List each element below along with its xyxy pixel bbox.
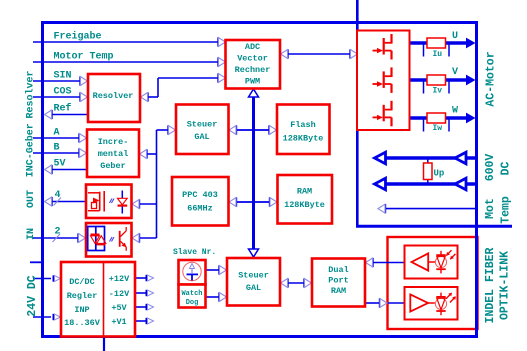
- svg-text:ADC: ADC: [245, 42, 260, 52]
- wire DCDC ground drop: [103, 338, 105, 351]
- wire 5V: [51, 169, 88, 171]
- wire COS: [33, 96, 81, 98]
- diode OUT output: [118, 191, 128, 214]
- resistor Iu: [427, 38, 446, 48]
- label Motor Temp: [54, 52, 114, 63]
- wire DualPort to fiber TX: [366, 302, 380, 304]
- node arrow into ADC from resolver wire: [217, 73, 225, 82]
- svg-text:128KByte: 128KByte: [283, 134, 324, 144]
- svg-text:Watch: Watch: [181, 290, 202, 298]
- wire phase W: [410, 116, 467, 119]
- label B: [54, 143, 60, 154]
- wire Iu sense taps: [424, 44, 450, 57]
- node arrow U filled: [466, 38, 476, 49]
- svg-text:5V: 5V: [54, 159, 66, 170]
- svg-text:Slave Nr.: Slave Nr.: [173, 248, 216, 257]
- block Steuer GAL 1: [176, 105, 229, 155]
- node RX photon arrows: [446, 250, 455, 259]
- node IN arrow into opto: [77, 233, 85, 242]
- label IN side: [26, 228, 37, 240]
- svg-text:COS: COS: [54, 87, 72, 98]
- node OUT arrow out to border: [45, 197, 53, 206]
- svg-text:IN: IN: [26, 228, 37, 240]
- wire A: [33, 137, 80, 139]
- wire OUT bus slash: [54, 198, 62, 206]
- wire -12V out: [136, 290, 154, 296]
- node COS arrow into Resolver: [79, 92, 87, 101]
- transistor OUT photomos: [88, 191, 104, 212]
- node arrow 600V plus left: [375, 152, 386, 164]
- node Motor Temp arrow into ADC: [217, 57, 225, 66]
- wire Ref: [51, 114, 88, 116]
- label A: [54, 128, 60, 139]
- power section divider vertical: [356, 0, 359, 227]
- bus ADC vertical: [252, 95, 255, 250]
- node arrow into PPC right: [229, 197, 237, 206]
- wire GAL2 to DualPort: [281, 282, 313, 284]
- node Freigabe arrow into ADC: [217, 37, 225, 46]
- transistor IGBT W: [373, 101, 392, 127]
- wire resolver feedback: [147, 78, 219, 97]
- svg-text:Incre-: Incre-: [98, 137, 129, 147]
- node arrow into RAM left: [269, 197, 277, 206]
- svg-text:INDEL FIBER: INDEL FIBER: [484, 247, 497, 323]
- svg-text:66MHz: 66MHz: [187, 204, 213, 214]
- block Dual Port RAM: [312, 259, 365, 307]
- node arrow 600V minus left: [375, 178, 386, 190]
- wire 600V plus: [377, 156, 476, 160]
- wire Steuer GAL1 to Flash: [229, 129, 277, 131]
- svg-text:Iv: Iv: [433, 86, 443, 95]
- svg-text:DC: DC: [500, 162, 513, 176]
- svg-text:Temp: Temp: [500, 196, 513, 224]
- main frame border: [43, 23, 477, 337]
- svg-text:Freigabe: Freigabe: [54, 31, 102, 43]
- node arrow 600V minus mid: [455, 178, 466, 190]
- node 5V arrow out to border: [45, 165, 53, 174]
- svg-text:RAM: RAM: [331, 286, 346, 296]
- block fiber transmitter: [405, 287, 458, 320]
- wire Freigabe: [33, 41, 219, 43]
- svg-text:18..36V: 18..36V: [64, 318, 101, 328]
- wire PPC to RAM: [229, 201, 277, 203]
- label OUT side: [26, 190, 37, 208]
- label 4: [55, 190, 61, 201]
- svg-text:Regler: Regler: [67, 291, 98, 301]
- block IGBT power module: [357, 31, 410, 131]
- wire B: [33, 152, 80, 154]
- block Slave Nr selector: [179, 260, 206, 285]
- diode RX photodiode: [435, 251, 446, 274]
- svg-text:Resolver: Resolver: [93, 91, 134, 101]
- node arrow down into Steuer GAL2: [249, 249, 259, 257]
- svg-text:Motor Temp: Motor Temp: [54, 52, 114, 63]
- label AC-Motor side: [485, 51, 498, 106]
- node B arrow into Geber: [78, 148, 86, 157]
- label 2: [55, 227, 61, 238]
- transistor IGBT V: [373, 67, 392, 93]
- wire +V1 out: [136, 318, 154, 324]
- resistor Iw: [427, 113, 446, 123]
- label U: [452, 31, 458, 42]
- svg-text:INC-Geber: INC-Geber: [25, 123, 37, 177]
- diode IN antiparallel leds: [91, 235, 106, 245]
- svg-text:Flash: Flash: [290, 120, 316, 130]
- label Ref: [54, 103, 72, 115]
- node IN input bridge: [88, 227, 105, 251]
- block OUT optocoupler: [86, 185, 132, 219]
- svg-text:Geber: Geber: [100, 161, 126, 171]
- label Iv: [433, 86, 443, 95]
- wire Iv sense taps: [424, 81, 450, 94]
- node IN coupling mark: [110, 237, 115, 242]
- wire DCDC in1: [33, 278, 51, 280]
- block fiber receiver: [405, 246, 458, 279]
- op-amp RX: [412, 253, 436, 270]
- svg-text:600V: 600V: [484, 154, 497, 182]
- svg-text:Iw: Iw: [433, 124, 443, 133]
- svg-text:Vector: Vector: [237, 54, 268, 64]
- label Slave Nr.: [173, 248, 216, 257]
- svg-text:RAM: RAM: [297, 187, 312, 197]
- svg-text:Rechner: Rechner: [235, 65, 271, 75]
- svg-text:24V DC: 24V DC: [26, 275, 39, 317]
- block Incremental Geber: [87, 130, 139, 178]
- svg-text:Up: Up: [434, 169, 445, 179]
- label Mot Temp side: [484, 196, 513, 224]
- node arrow V filled: [466, 75, 476, 86]
- svg-text:+5V: +5V: [111, 303, 127, 313]
- label Resolver side: [25, 70, 37, 118]
- node A arrow into Geber: [78, 133, 86, 142]
- node TX photon arrows: [446, 293, 456, 303]
- power section divider horizontal: [356, 225, 512, 228]
- block PPC 403: [172, 177, 229, 226]
- node arrow Mot Temp: [378, 204, 386, 213]
- label V: [452, 67, 458, 78]
- wire +12V out: [136, 275, 154, 281]
- wire +5V out: [136, 304, 154, 310]
- svg-text:128KByte: 128KByte: [284, 200, 325, 210]
- block Watch Dog: [179, 285, 206, 308]
- wire Iw sense taps: [424, 119, 450, 132]
- block Flash: [277, 105, 330, 155]
- wire DCDC in2: [33, 316, 51, 318]
- svg-text:Steuer: Steuer: [187, 120, 218, 130]
- svg-text:mental: mental: [98, 149, 129, 159]
- svg-text:-12V: -12V: [109, 289, 130, 299]
- svg-text:GAL: GAL: [246, 283, 261, 293]
- wire branch to Steuer GAL1: [157, 125, 176, 134]
- svg-text:SIN: SIN: [54, 71, 72, 82]
- node arrow into GAL2 right: [281, 278, 289, 287]
- node OUT coupling mark: [110, 199, 115, 204]
- wire phase U: [410, 41, 467, 44]
- label Iw: [433, 124, 443, 133]
- wire Slave to GAL2: [206, 265, 227, 274]
- label Up: [434, 169, 445, 179]
- wire phase V: [410, 78, 467, 81]
- wire SIN: [33, 80, 81, 82]
- wire 600V minus: [377, 182, 476, 186]
- node DCDC in2 arrow: [53, 314, 61, 320]
- wire IN bus slash: [53, 234, 61, 242]
- label SIN: [54, 71, 72, 82]
- svg-text:PWM: PWM: [245, 77, 260, 87]
- svg-text:W: W: [452, 106, 458, 117]
- resistor Iv: [427, 75, 446, 85]
- wire Mot Temp sense: [385, 208, 476, 210]
- svg-text:+12V: +12V: [109, 274, 130, 284]
- 24V section tick: [30, 261, 44, 263]
- node arrow into Resolver right: [141, 92, 149, 101]
- node DCDC in1 arrow: [53, 275, 61, 281]
- block DC/DC Regler: [61, 262, 135, 337]
- node arrow into Steuer GAL1 right: [229, 125, 237, 134]
- wire WatchDog to GAL2: [206, 292, 227, 301]
- wire branch to Geber: [140, 149, 157, 158]
- label Iu: [433, 50, 443, 59]
- op-amp TX: [410, 294, 435, 311]
- svg-text:V: V: [452, 67, 458, 78]
- transistor IGBT U: [373, 34, 392, 60]
- svg-text:Steuer: Steuer: [238, 271, 269, 281]
- svg-text:Dual: Dual: [328, 265, 348, 275]
- node arrow up into ADC: [249, 89, 259, 97]
- wire IN 2: [33, 237, 78, 239]
- node selector wiper: [187, 264, 199, 281]
- svg-text:Dog: Dog: [186, 299, 199, 307]
- svg-text:B: B: [54, 143, 60, 154]
- svg-text:Iu: Iu: [433, 50, 443, 59]
- node arrow W filled: [466, 113, 476, 124]
- node arrow into DualPort left: [303, 278, 311, 287]
- label Freigabe: [54, 31, 102, 43]
- node SIN arrow into Resolver: [79, 76, 87, 85]
- svg-text:AC-Motor: AC-Motor: [485, 51, 498, 106]
- svg-text:Port: Port: [328, 276, 348, 286]
- svg-text:PPC 403: PPC 403: [182, 190, 218, 200]
- node arrow into DualPort right: [366, 258, 374, 267]
- node arrow into fiber box: [379, 298, 387, 307]
- block IN optocoupler: [86, 223, 132, 257]
- label INDEL FIBER OPTIK-LINK side: [484, 247, 512, 323]
- svg-text:DC/DC: DC/DC: [69, 277, 95, 287]
- svg-text:OPTIK-LINK: OPTIK-LINK: [499, 251, 512, 320]
- block Steuer GAL 2: [227, 258, 280, 306]
- node Ref arrow out to border: [45, 110, 53, 119]
- svg-text:INP: INP: [74, 305, 89, 315]
- svg-text:Ref: Ref: [54, 103, 72, 115]
- wire OUT 4: [51, 201, 86, 203]
- wire branch to IN opto: [132, 233, 157, 242]
- label W: [452, 106, 458, 117]
- label 600V DC side: [484, 154, 513, 182]
- block RAM: [278, 175, 333, 224]
- block fiber link outer: [388, 237, 478, 329]
- svg-text:GAL: GAL: [194, 132, 209, 142]
- node arrow into ADC right: [281, 49, 289, 58]
- wire left peripheral bus vertical: [156, 130, 158, 238]
- svg-text:Mot: Mot: [484, 198, 497, 219]
- label COS: [54, 87, 72, 98]
- wire Motor Temp: [33, 61, 219, 63]
- wire into TX amp: [388, 302, 405, 304]
- label 24V DC side: [26, 275, 39, 317]
- node arrow 600V plus mid: [455, 152, 466, 164]
- wire branch to OUT opto: [132, 199, 157, 208]
- wire ADC to power module: [281, 53, 356, 55]
- svg-text:U: U: [452, 31, 458, 42]
- label INC-Geber side: [25, 123, 37, 177]
- svg-text:OUT: OUT: [26, 190, 37, 208]
- wire fiber RX to DualPort: [372, 262, 405, 264]
- block ADC Vector Rechner PWM: [226, 40, 281, 89]
- node arrow into Flash left: [268, 125, 276, 134]
- label 5V: [54, 159, 66, 170]
- op-amp block Resolver: [88, 74, 140, 122]
- svg-text:A: A: [54, 128, 60, 139]
- svg-text:Resolver: Resolver: [25, 70, 37, 118]
- transistor IN photo: [120, 227, 127, 251]
- resistor Up: [424, 158, 433, 184]
- node arrow into power module: [349, 49, 357, 58]
- diode TX led: [435, 293, 446, 316]
- svg-text:+V1: +V1: [111, 317, 126, 327]
